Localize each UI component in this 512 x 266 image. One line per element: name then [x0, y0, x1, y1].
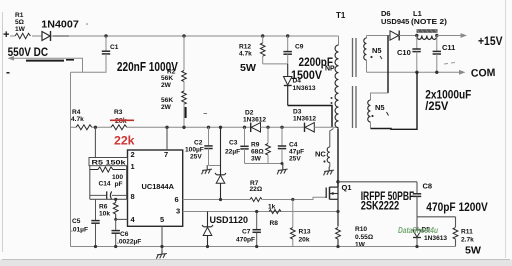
scan page edge bottom band	[0, 260, 512, 266]
capacitor C2	[208, 127, 210, 145]
svg-text:C11: C11	[442, 43, 455, 52]
transformer secondary upper N5	[366, 36, 368, 39]
diode D6 USD945	[390, 31, 399, 40]
svg-text:N5: N5	[375, 103, 385, 112]
svg-text:10k: 10k	[99, 211, 110, 218]
svg-text:D2: D2	[245, 110, 254, 117]
svg-text:UC1844A: UC1844A	[142, 182, 175, 191]
svg-text:5: 5	[160, 215, 164, 224]
wire mid bus	[71, 126, 77, 128]
node junction C10 bottom	[415, 71, 418, 74]
wire D3 to NP bottom	[314, 126, 338, 128]
node N5 lower polarity dot	[371, 115, 373, 117]
capacitor C11	[436, 36, 438, 51]
node junction R9 top	[266, 126, 269, 129]
diode D2 1N3612	[250, 123, 252, 132]
node junction C11 bottom	[435, 71, 438, 74]
svg-text:.01µF: .01µF	[71, 227, 88, 234]
resistor R5 150k	[90, 167, 126, 172]
scan page edge right line	[505, 0, 507, 258]
wire drain to C8	[338, 181, 417, 183]
svg-text:4.7k: 4.7k	[239, 51, 252, 58]
svg-text:2SK2222: 2SK2222	[361, 198, 400, 212]
wire D4 return to NP bottom	[288, 106, 332, 128]
svg-text:R4: R4	[72, 109, 81, 116]
svg-text:470pF: 470pF	[236, 237, 255, 244]
wire R1 to D1	[32, 35, 42, 37]
node junction D5 bottom	[415, 245, 418, 248]
svg-text:R10: R10	[355, 226, 367, 233]
diode D1 1N4007	[42, 32, 50, 41]
svg-text:C5: C5	[72, 218, 81, 225]
transistor Q1 MOSFET	[325, 188, 327, 199]
resistor R8 1k	[269, 210, 281, 214]
diode D4 1N3613	[287, 64, 289, 77]
svg-text:25V: 25V	[289, 156, 301, 163]
node junction C4 ground	[281, 162, 284, 165]
node junction pin7 feed	[165, 126, 168, 129]
transformer secondary lower N5	[371, 93, 389, 100]
node junction R12 top	[261, 34, 264, 37]
svg-text:C3: C3	[229, 140, 238, 147]
svg-text:100: 100	[112, 174, 123, 181]
svg-text:3: 3	[176, 207, 180, 216]
svg-text:68Ω: 68Ω	[251, 149, 264, 156]
ground rake NC	[324, 167, 334, 175]
resistor R9	[267, 127, 269, 143]
svg-text:1W: 1W	[355, 241, 366, 248]
svg-text:+: +	[3, 29, 9, 41]
node junction C4 top	[280, 126, 283, 129]
node junction R2 bottom	[182, 126, 185, 129]
svg-text:NC: NC	[315, 150, 326, 159]
svg-text:28k: 28k	[115, 118, 127, 125]
node junction R6 bottom	[114, 218, 117, 221]
svg-text:C14: C14	[99, 181, 111, 188]
wire dashes near caps	[444, 63, 455, 65]
svg-text:/25V: /25V	[425, 99, 448, 113]
wire R7 to gate	[262, 197, 326, 199]
svg-text:22µF: 22µF	[225, 149, 240, 156]
resistor R6 10k	[113, 199, 118, 219]
svg-text:1N4007: 1N4007	[41, 19, 79, 31]
svg-text:C4: C4	[289, 142, 298, 149]
node junction drain C8	[336, 180, 339, 183]
capacitor C8	[416, 182, 418, 193]
svg-text:56K: 56K	[161, 97, 173, 104]
svg-text:R1: R1	[15, 12, 24, 19]
svg-text:COM: COM	[471, 67, 496, 80]
svg-text:D4: D4	[293, 78, 302, 85]
svg-text:C8: C8	[423, 182, 433, 191]
wire negative rail overdraw	[26, 60, 64, 62]
node junction C10 top	[415, 34, 418, 37]
diode USD1120	[207, 212, 209, 227]
svg-text:1: 1	[131, 162, 135, 171]
svg-text:22Ω: 22Ω	[250, 186, 263, 193]
capacitor C5	[95, 199, 97, 220]
svg-text:D3: D3	[293, 109, 302, 116]
scan page edge left line	[2, 12, 4, 252]
wire D6 to L1	[399, 35, 417, 37]
node junction C2 top	[207, 126, 210, 129]
ground rake pin5	[157, 251, 167, 258]
wire D2 to D3	[261, 126, 305, 128]
svg-text:1N3613: 1N3613	[293, 85, 316, 92]
wire negative rail with arrow	[13, 58, 83, 72]
svg-text:1N3613: 1N3613	[424, 235, 447, 242]
node junction C3 top	[243, 126, 246, 129]
svg-text:1N3612: 1N3612	[293, 116, 316, 123]
wire source line	[337, 199, 339, 226]
node junction C7 bottom	[255, 245, 258, 248]
wire R12 bottom to C9	[263, 63, 288, 65]
capacitor C14	[90, 194, 106, 196]
winding NC	[330, 129, 334, 148]
svg-text:C10: C10	[397, 48, 411, 57]
svg-text:R13: R13	[299, 229, 311, 236]
diode D5 1N3613	[416, 217, 418, 230]
svg-text:R6: R6	[99, 204, 108, 211]
resistor R1	[15, 33, 30, 38]
node junction R10 bottom	[336, 245, 339, 248]
svg-text:R3: R3	[114, 109, 123, 116]
svg-text:2.7k: 2.7k	[461, 237, 474, 244]
node junction clamp diode	[219, 198, 222, 201]
diode clamp under C2 (USD1120)	[220, 127, 222, 175]
wire bottom bus	[71, 246, 456, 248]
capacitor C4	[281, 127, 283, 145]
capacitor C3	[244, 127, 246, 146]
wire pin5 ground	[161, 226, 163, 252]
node NP polarity dots	[331, 97, 333, 99]
wire R4 to R3	[92, 126, 111, 128]
capacitor C6	[115, 219, 117, 230]
svg-text:R5 150k: R5 150k	[92, 159, 126, 166]
svg-text:56K: 56K	[161, 75, 173, 82]
node junction C6 bottom	[114, 245, 117, 248]
capacitor C1	[105, 36, 107, 51]
node junction pin5	[160, 245, 163, 248]
svg-text:20k: 20k	[299, 237, 310, 244]
wire L1 to +15V arrow	[437, 35, 461, 37]
svg-text:.0022µF: .0022µF	[117, 239, 141, 246]
node junction C11 top	[435, 34, 438, 37]
svg-text:1k: 1k	[268, 204, 276, 211]
node junction R13 top	[291, 198, 294, 201]
svg-text:R11: R11	[461, 229, 473, 236]
svg-text:DataSheet4u: DataSheet4u	[398, 225, 439, 235]
svg-text:2: 2	[131, 150, 135, 159]
transformer core	[352, 38, 354, 77]
svg-text:C2: C2	[194, 140, 203, 147]
node junction USD1120 bottom	[206, 245, 209, 248]
inductor L1 with core bar	[417, 29, 438, 33]
wire R5C14 left rail	[89, 166, 91, 199]
resistor R2 (2x 56K 2W)	[183, 36, 185, 70]
svg-text:5W: 5W	[465, 244, 481, 256]
svg-text:R12: R12	[239, 44, 251, 51]
svg-text:1W: 1W	[15, 26, 26, 33]
svg-text:Q1: Q1	[342, 183, 352, 192]
ground rake C2	[202, 166, 212, 174]
node junction C5 bottom	[94, 245, 97, 248]
wire C3 R9 C4 ground bus	[245, 163, 283, 165]
wire R3 to D2	[127, 126, 251, 128]
svg-text:C6: C6	[120, 231, 129, 238]
wire negative horizontal to C1 bottom	[71, 71, 107, 73]
svg-text:5W: 5W	[240, 62, 256, 74]
stray mark	[204, 113, 208, 115]
capacitor C7	[256, 212, 258, 230]
wire pin4 line	[116, 218, 128, 220]
svg-text:2W: 2W	[161, 82, 172, 89]
svg-text:+15V: +15V	[478, 34, 503, 48]
svg-text:2W: 2W	[161, 104, 172, 111]
svg-text:N5: N5	[372, 46, 382, 55]
node junction source sense	[336, 210, 339, 213]
resistor R7 22ohm	[250, 198, 262, 202]
wire COM rail with arrow	[367, 71, 460, 73]
wire feed bus to R5 network	[94, 127, 96, 158]
svg-text:47µF: 47µF	[289, 149, 304, 156]
node N5 upper polarity dot	[370, 56, 372, 58]
op-amp U1 box UC1844A	[128, 150, 183, 226]
svg-text:pF: pF	[115, 181, 123, 188]
wire pin3 line	[183, 211, 338, 213]
node junction C9 top	[286, 34, 289, 37]
wire pin7 feed	[166, 127, 168, 150]
node junction feed R5	[94, 126, 97, 129]
svg-text:-: -	[6, 65, 10, 79]
wire pin8 line	[90, 198, 128, 200]
svg-text:R9: R9	[251, 142, 260, 149]
node junction R6 top	[114, 198, 117, 201]
wire top rail	[51, 35, 339, 37]
svg-text:3W: 3W	[251, 156, 262, 163]
svg-text:4.7k: 4.7k	[71, 116, 84, 123]
svg-text:C1: C1	[110, 44, 119, 51]
node junction C1 top	[104, 34, 107, 37]
ground rake C4	[277, 164, 287, 174]
svg-text:25V: 25V	[190, 154, 202, 161]
svg-text:USD945: USD945	[381, 17, 409, 26]
svg-text:C7: C7	[242, 229, 251, 236]
wire upper secondary top	[367, 35, 391, 37]
node NC polarity dot	[323, 160, 325, 162]
svg-text:(NOTE 2): (NOTE 2)	[411, 17, 448, 26]
svg-text:T1: T1	[336, 11, 346, 20]
wire drain line	[337, 129, 339, 188]
resistor R4	[76, 125, 92, 130]
capacitor C10	[416, 36, 418, 49]
wire pin6 OUT line	[183, 199, 250, 201]
resistor R11 2.7k	[455, 217, 457, 227]
wire left rail down	[70, 72, 72, 246]
svg-text:NP: NP	[325, 66, 335, 73]
resistor R12	[262, 35, 264, 37]
svg-text:R8: R8	[270, 220, 279, 227]
wire overdraw after D1	[53, 35, 69, 37]
svg-text:0.55Ω: 0.55Ω	[355, 234, 374, 241]
svg-text:7: 7	[164, 150, 168, 159]
wire plus lead	[10, 35, 15, 37]
resistor R13 20k	[292, 200, 294, 228]
svg-text:8: 8	[131, 192, 135, 201]
svg-text:1N3612: 1N3612	[243, 117, 266, 124]
wire R5C14 right rail	[126, 166, 128, 199]
wire snubber top	[417, 216, 456, 218]
svg-text:22k: 22k	[114, 134, 135, 148]
transformer primary winding NP	[338, 36, 340, 45]
wire lower N5 feed from D6 anode	[387, 36, 389, 94]
resistor R10 0.55ohm	[336, 228, 341, 240]
svg-text:USD1120: USD1120	[210, 215, 249, 225]
wire C2 bottom node	[209, 165, 221, 167]
capacitor C9	[287, 36, 289, 51]
svg-text:6: 6	[175, 195, 179, 204]
svg-text:100µF: 100µF	[185, 147, 204, 154]
node junction R2 top	[182, 34, 185, 37]
wire lower N5 bottom return	[371, 72, 418, 129]
svg-text:5Ω: 5Ω	[15, 19, 25, 26]
resistor R3	[111, 125, 127, 130]
svg-text:470pF 1200V: 470pF 1200V	[426, 200, 488, 214]
svg-text:C9: C9	[295, 44, 304, 51]
diode D3 1N3612	[304, 123, 306, 132]
